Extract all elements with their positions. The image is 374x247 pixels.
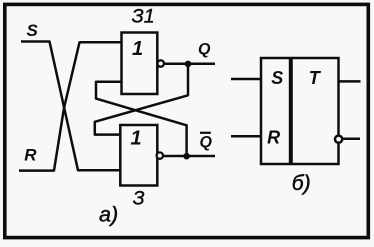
node Q junction bbox=[185, 61, 192, 68]
inversion circle on output bbox=[335, 136, 342, 143]
svg-text:З1: З1 bbox=[132, 6, 155, 28]
wire inverse output bbox=[343, 138, 360, 141]
svg-text:З: З bbox=[133, 189, 145, 210]
label Q-bar bbox=[200, 133, 213, 151]
svg-text:1: 1 bbox=[130, 128, 141, 150]
wire direct output bbox=[338, 80, 361, 83]
wire Q-bar output bbox=[163, 155, 215, 158]
svg-text:R: R bbox=[24, 146, 37, 165]
node Q-bar junction bbox=[183, 153, 190, 160]
svg-text:Q: Q bbox=[200, 134, 213, 151]
gate Э1 (inverter, element 1) bbox=[122, 33, 164, 95]
wire S input to gate Э (crossing) bbox=[21, 42, 120, 171]
svg-text:б): б) bbox=[292, 172, 311, 195]
wire feedback Q-bar to gate Э1 input bbox=[96, 82, 187, 157]
wire feedback Q to gate Э input bbox=[95, 64, 188, 135]
wire Q output bbox=[164, 63, 215, 66]
svg-text:а): а) bbox=[99, 203, 118, 227]
gate Э (inverter, element 1) bbox=[120, 125, 163, 186]
svg-text:1: 1 bbox=[132, 38, 143, 60]
svg-text:Q: Q bbox=[198, 41, 211, 58]
svg-text:S: S bbox=[27, 21, 39, 40]
svg-text:R: R bbox=[267, 128, 280, 148]
wire R input bbox=[231, 135, 261, 138]
wire R input to gate Э1 (crossing) bbox=[19, 42, 122, 170]
flip-flop block symbol T bbox=[261, 58, 339, 164]
wire S input bbox=[231, 78, 261, 81]
svg-text:S: S bbox=[271, 68, 283, 88]
